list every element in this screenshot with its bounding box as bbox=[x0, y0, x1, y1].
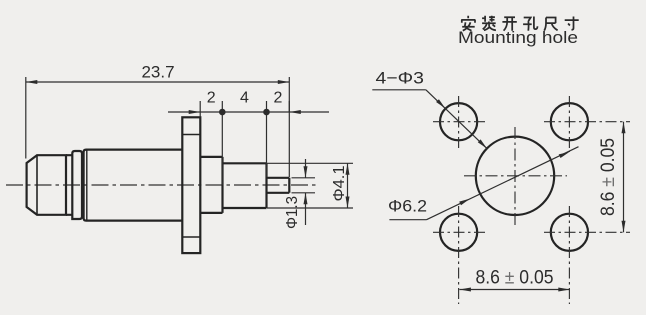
svg-text:8.6 ± 0.05: 8.6 ± 0.05 bbox=[476, 267, 554, 289]
title chinese char CHI (ruler) bbox=[544, 18, 557, 31]
dimension 23.7 left arrow bbox=[26, 80, 38, 84]
svg-text:2: 2 bbox=[207, 90, 216, 107]
center pin diameter 1.3 bbox=[267, 178, 290, 193]
mounting hole circle top-right bbox=[551, 103, 588, 140]
centerline cross bottom-left hole (down arm is extension for bottom dim) bbox=[433, 206, 486, 304]
svg-text:8.6 ± 0.05: 8.6 ± 0.05 bbox=[597, 138, 619, 216]
dimension phi4.1 bottom arrow bbox=[346, 197, 350, 209]
title chinese char ZHUANG (dress) bbox=[482, 16, 496, 31]
centerline cross top-left hole bbox=[433, 96, 486, 149]
svg-text:Φ1.3: Φ1.3 bbox=[284, 196, 301, 229]
connector nose (plug tip) bbox=[27, 155, 66, 215]
label phi6.2 leader line bbox=[427, 147, 579, 220]
title chinese char KONG (hole) bbox=[523, 17, 537, 31]
dimension 2-4-2 extension lines bbox=[200, 101, 289, 185]
centerline cross top-right hole (right arm is extension for vertical dim) bbox=[544, 96, 630, 152]
shaft step 1 bbox=[200, 157, 222, 213]
ring ridge on connector bbox=[72, 151, 82, 219]
dimension 8.6 bottom line bbox=[459, 289, 569, 291]
dimension 2-4-2 junction dot 1 bbox=[219, 109, 226, 116]
dimension phi4.1 line bbox=[347, 163, 349, 208]
title chinese char KAI (open) bbox=[502, 17, 516, 30]
dimension phi1.3 line bbox=[305, 159, 307, 225]
title chinese char AN (safe) bbox=[461, 16, 475, 31]
dimension phi4.1 extension lines bbox=[267, 163, 353, 208]
dimension 8.6 bottom right arrow bbox=[558, 288, 570, 292]
label phi6.2 leader arrow 2 bbox=[559, 152, 570, 158]
mounting hole circle top-left bbox=[440, 103, 477, 140]
shaft step 2 diameter 4.1 bbox=[223, 163, 267, 208]
dimension 8.6 bottom left arrow bbox=[459, 288, 471, 292]
centerline cross bottom-right hole bbox=[544, 206, 630, 304]
center hole circle phi6.2 bbox=[476, 137, 554, 215]
dimension phi4.1 top arrow bbox=[346, 163, 350, 175]
flange lower tangent line bbox=[182, 236, 200, 238]
dimension 23.7 line bbox=[26, 81, 290, 83]
dimension 2-4-2 left arrow bbox=[189, 110, 201, 114]
nose chamfer junction line bbox=[36, 155, 38, 215]
svg-text:23.7: 23.7 bbox=[141, 63, 174, 82]
dimension phi1.3 extension lines bbox=[292, 178, 316, 193]
dimension 8.6 right line bbox=[623, 122, 625, 233]
svg-text:4−Φ3: 4−Φ3 bbox=[376, 69, 425, 88]
dimension 8.6 right top arrow bbox=[622, 122, 626, 134]
body groove line bbox=[86, 150, 88, 221]
dimension 2-4-2 junction dot 2 bbox=[263, 109, 270, 116]
svg-text:4: 4 bbox=[240, 90, 249, 107]
label 4-phi3 underline bbox=[372, 89, 426, 91]
title chinese char CUN (unit) bbox=[565, 17, 579, 30]
dimension 2-4-2 right arrow bbox=[289, 110, 301, 114]
nose neck top/bottom edges bbox=[66, 155, 72, 215]
dimension 8.6 right bottom arrow bbox=[622, 221, 626, 233]
mounting hole circle bottom-left bbox=[440, 214, 477, 251]
label phi6.2 underline bbox=[389, 219, 426, 221]
dimension 2-4-2 line bbox=[168, 111, 329, 113]
svg-text:Φ6.2: Φ6.2 bbox=[388, 197, 427, 216]
svg-text:Φ4.1: Φ4.1 bbox=[331, 165, 348, 201]
dimension 23.7 extension lines bbox=[26, 77, 290, 177]
svg-text:Mounting hole: Mounting hole bbox=[458, 29, 578, 47]
dimension phi1.3 bottom arrow bbox=[304, 193, 308, 205]
dimension phi1.3 top arrow bbox=[304, 166, 308, 178]
centerline connector axis bbox=[6, 184, 318, 186]
dimension 23.7 right arrow bbox=[278, 80, 290, 84]
svg-text:2: 2 bbox=[273, 90, 282, 107]
flange upper tangent line bbox=[182, 134, 200, 136]
label 4-phi3 leader arrow 2 bbox=[478, 139, 487, 148]
mounting flange bbox=[182, 117, 200, 253]
mounting hole circle bottom-right bbox=[551, 214, 588, 251]
label 4-phi3 leader arrow 1 bbox=[436, 99, 445, 108]
label 4-phi3 leader line bbox=[426, 90, 487, 149]
centerline cross center hole bbox=[464, 127, 567, 225]
label phi6.2 leader arrow 1 bbox=[459, 199, 470, 206]
connector body bbox=[84, 150, 183, 221]
